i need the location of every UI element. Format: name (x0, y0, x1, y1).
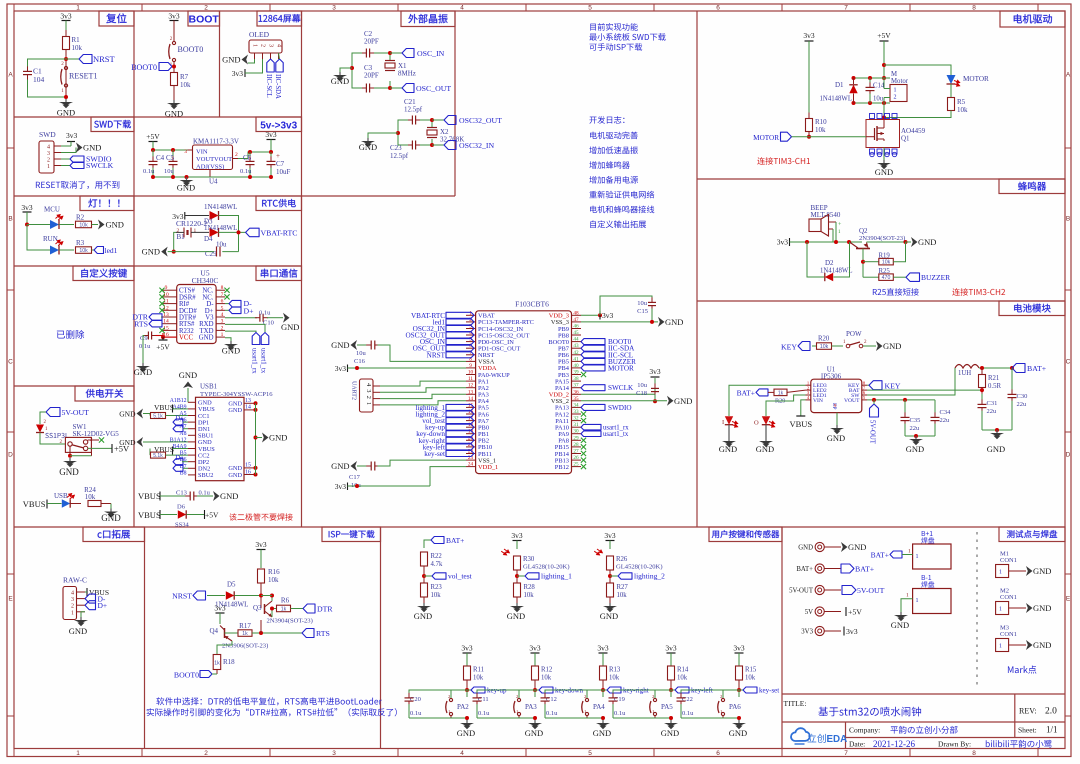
capacitor C7 polarized (270, 152, 272, 158)
svg-text:BAT+: BAT+ (871, 551, 889, 560)
ground ldo (186, 177, 188, 180)
svg-text:9: 9 (469, 363, 472, 369)
wire (66, 58, 79, 60)
svg-text:2.0: 2.0 (1045, 707, 1057, 717)
svg-text:GND: GND (987, 444, 1005, 454)
ground sw1 (69, 458, 71, 461)
svg-text:OSC_IN: OSC_IN (417, 49, 445, 58)
wire (65, 50, 67, 98)
vcc wire +5V (162, 336, 177, 338)
ground buzzer (911, 237, 918, 247)
svg-text:I: I (722, 419, 724, 426)
crystal X1 (374, 53, 390, 60)
block partition lines (133, 11, 135, 527)
svg-text:CON1: CON1 (1000, 631, 1017, 638)
net port OSC_OUT (390, 87, 402, 89)
svg-text:D4: D4 (204, 235, 213, 243)
resistor R1 (63, 37, 70, 50)
capacitor C1 (28, 59, 67, 67)
svg-text:0.1u: 0.1u (143, 168, 155, 175)
svg-text:CON1: CON1 (1000, 594, 1017, 601)
svg-text:key-set: key-set (759, 687, 779, 695)
svg-text:10u: 10u (873, 96, 884, 103)
wire key bottom (681, 718, 739, 722)
net port NRST (79, 55, 92, 64)
net port D- typec2 (173, 465, 183, 471)
svg-text:3: 3 (71, 597, 74, 603)
svg-text:C9: C9 (140, 335, 148, 342)
svg-text:1: 1 (221, 332, 224, 338)
svg-text:OSC32_OUT: OSC32_OUT (459, 116, 502, 125)
svg-text:REV:: REV: (1019, 707, 1037, 716)
net port BOOT0 isp (200, 671, 212, 678)
ground (339, 72, 341, 75)
svg-text:GND: GND (331, 76, 349, 86)
wire key top (409, 690, 467, 695)
ground usb right (256, 437, 263, 439)
net port SWCLK (61, 165, 70, 167)
svg-text:Q1: Q1 (901, 135, 910, 143)
svg-text:48: 48 (573, 310, 579, 316)
svg-text:5V-OUT: 5V-OUT (62, 408, 90, 417)
block title 灯！！！ (80, 196, 134, 211)
block title 用户按键和传感器 (709, 527, 782, 542)
svg-text:D+: D+ (98, 601, 108, 610)
svg-text:BAT+: BAT+ (737, 389, 755, 398)
block title 测试点与焊盘 (999, 527, 1065, 542)
svg-text:C12: C12 (546, 696, 557, 703)
net port key-down (535, 689, 539, 691)
svg-text:MOTOR: MOTOR (608, 364, 634, 372)
svg-text:Motor: Motor (891, 78, 909, 85)
resistor R11 (464, 666, 471, 680)
svg-text:VBUS: VBUS (138, 510, 161, 520)
note deleted (57, 330, 84, 339)
svg-text:0.1u: 0.1u (240, 168, 252, 175)
svg-text:C17: C17 (349, 474, 361, 481)
svg-text:3v3: 3v3 (604, 531, 616, 540)
svg-text:D: D (8, 451, 13, 458)
svg-text:BUZZER: BUZZER (921, 273, 950, 282)
transistor Q1 AO4459 mosfet (866, 120, 900, 148)
svg-text:10u: 10u (356, 350, 367, 357)
svg-text:C19: C19 (614, 696, 625, 703)
wire (173, 86, 175, 101)
resistor R27 (607, 583, 614, 597)
ground (173, 100, 175, 103)
svg-text:C5: C5 (166, 154, 175, 162)
svg-text:lighting_1: lighting_1 (541, 572, 572, 581)
svg-text:Q2: Q2 (859, 227, 868, 235)
svg-text:GND: GND (331, 340, 349, 350)
svg-text:2: 2 (221, 325, 224, 331)
crystal X2 (420, 120, 432, 127)
svg-text:1: 1 (999, 644, 1002, 650)
svg-text:2: 2 (47, 158, 50, 164)
svg-text:PA2: PA2 (457, 703, 469, 711)
note isp explanation (156, 697, 382, 705)
svg-text:10k: 10k (815, 126, 826, 134)
svg-text:GND: GND (57, 108, 75, 118)
svg-text:8MHz: 8MHz (398, 70, 416, 78)
svg-text:5V-OUT: 5V-OUT (857, 586, 885, 595)
svg-text:37: 37 (573, 383, 579, 389)
svg-text:7: 7 (844, 750, 848, 757)
svg-text:3v3: 3v3 (168, 12, 180, 21)
switch PA3 (534, 690, 536, 697)
svg-text:0.1u: 0.1u (682, 710, 694, 717)
svg-text:VOUTVOUT: VOUTVOUT (196, 156, 232, 163)
ground c9 (142, 363, 144, 366)
note r25 short (873, 288, 919, 296)
svg-text:GND: GND (525, 728, 543, 738)
svg-text:GND: GND (119, 410, 136, 419)
vss3 gnd (581, 321, 658, 323)
svg-text:GND: GND (906, 444, 924, 454)
svg-text:12: 12 (468, 383, 474, 389)
svg-text:20PF: 20PF (364, 38, 379, 46)
led charge I (729, 385, 806, 416)
svg-text:GND: GND (69, 626, 87, 636)
ground c34 c35 (905, 435, 935, 437)
svg-text:VBUS: VBUS (154, 403, 174, 412)
svg-text:GND: GND (665, 317, 683, 327)
note Mark dot (1008, 665, 1036, 673)
node NRST junction (64, 57, 68, 61)
svg-text:D6: D6 (177, 504, 186, 511)
svg-text:15: 15 (245, 463, 251, 469)
left net ports mcu (446, 312, 474, 318)
svg-text:4: 4 (276, 44, 282, 47)
svg-text:PA6: PA6 (729, 703, 741, 711)
svg-text:MLT-8540: MLT-8540 (811, 211, 841, 219)
usart1 ports (581, 424, 601, 430)
svg-text:GND: GND (179, 370, 197, 380)
svg-text:1: 1 (999, 607, 1002, 613)
svg-text:10k: 10k (85, 493, 96, 501)
capacitor C14 (869, 78, 871, 84)
svg-text:3v3: 3v3 (232, 69, 244, 78)
svg-text:3v3: 3v3 (649, 367, 661, 376)
svg-text:1: 1 (916, 598, 919, 604)
svg-text:IIC-SDA: IIC-SDA (274, 74, 281, 99)
wire (27, 224, 50, 226)
resistor R1 5.1k cc1 (137, 409, 144, 419)
resistor R10 (808, 113, 810, 120)
note tim3-ch1 (757, 157, 810, 165)
svg-text:13: 13 (245, 398, 251, 404)
svg-text:6: 6 (716, 750, 720, 757)
wire (65, 21, 67, 31)
svg-text:29: 29 (573, 435, 579, 441)
capacitor C15 (600, 296, 652, 315)
svg-text:10uF: 10uF (276, 168, 291, 176)
svg-text:PA4: PA4 (593, 703, 605, 711)
block title 5v->3v3 (256, 117, 302, 132)
svg-text:C16: C16 (354, 358, 366, 365)
svg-text:12.5pf: 12.5pf (404, 106, 423, 114)
svg-text:C29: C29 (205, 250, 217, 258)
svg-text:R2: R2 (76, 214, 85, 222)
switch PA6 (738, 690, 740, 697)
svg-text:Company:: Company: (849, 726, 880, 735)
svg-text:usart1_tx: usart1_tx (260, 348, 267, 374)
svg-text:5V-OUT: 5V-OUT (789, 588, 814, 595)
ground mcu led (98, 220, 105, 230)
svg-text:36: 36 (573, 389, 579, 395)
switch PA5 (670, 690, 672, 697)
svg-text:GND: GND (798, 545, 813, 552)
svg-text:R11: R11 (473, 667, 484, 674)
svg-text:25: 25 (573, 462, 579, 468)
net port BAT+ right (1012, 364, 1025, 373)
svg-text:22u: 22u (987, 408, 998, 415)
svg-text:10k: 10k (524, 592, 535, 599)
svg-text:10k: 10k (820, 344, 829, 350)
gnd ep (836, 413, 838, 425)
svg-text:10k: 10k (745, 675, 756, 682)
svg-text:+5V: +5V (848, 608, 862, 617)
svg-text:RESET1: RESET1 (69, 72, 97, 81)
svg-text:MCU: MCU (44, 206, 60, 214)
svg-text:2021-12-26: 2021-12-26 (873, 739, 915, 749)
net port OSC_IN (390, 52, 402, 54)
svg-text:+: + (276, 152, 280, 160)
svg-text:20PF: 20PF (364, 72, 379, 80)
net port D- typec1 (173, 426, 183, 432)
svg-text:1k: 1k (778, 390, 784, 396)
svg-text:GND: GND (875, 167, 893, 177)
svg-text:GND: GND (134, 367, 152, 377)
block title 12864屏幕 (257, 11, 302, 26)
pa12 pa11 x (581, 411, 586, 416)
svg-text:C13: C13 (176, 490, 187, 497)
svg-text:GND: GND (331, 461, 349, 471)
svg-text:11: 11 (468, 376, 473, 382)
svg-text:C11: C11 (478, 696, 489, 703)
net port led1 (94, 247, 104, 254)
node junctions (388, 51, 392, 55)
svg-text:2N3906(SOT-23): 2N3906(SOT-23) (222, 643, 268, 650)
svg-text:10k: 10k (79, 248, 88, 254)
svg-text:E: E (8, 595, 13, 602)
svg-text:A: A (8, 71, 13, 78)
svg-text:2: 2 (235, 152, 238, 158)
svg-text:GND: GND (918, 237, 936, 247)
wire q3 base-emitter (271, 609, 273, 618)
svg-text:9: 9 (165, 285, 168, 291)
svg-text:+5V: +5V (877, 31, 891, 40)
svg-text:MOTOR: MOTOR (753, 134, 779, 142)
net port D- usb (225, 303, 229, 305)
wire (40, 433, 65, 445)
svg-text:3v3: 3v3 (511, 531, 523, 540)
svg-text:5: 5 (588, 5, 592, 12)
svg-text:1N4148WL: 1N4148WL (204, 203, 237, 211)
resistor R28 (514, 583, 521, 597)
gnd rail wire (153, 176, 271, 178)
note current functions (590, 23, 638, 31)
svg-text:GND: GND (142, 247, 160, 257)
net port 5V-OUT vertical (867, 389, 982, 391)
swdio port (581, 404, 605, 410)
svg-text:10k: 10k (617, 592, 628, 599)
svg-text:VBUS: VBUS (138, 491, 161, 501)
capacitor C6 (248, 150, 252, 154)
net port RTS isp (302, 629, 314, 638)
svg-text:1N4148WL: 1N4148WL (204, 224, 237, 232)
svg-text:TITLE:: TITLE: (784, 699, 807, 708)
ground led I (728, 438, 730, 441)
svg-text:2N3904(SOT-23): 2N3904(SOT-23) (859, 235, 905, 242)
svg-text:2: 2 (71, 604, 74, 610)
svg-text:GND: GND (165, 109, 183, 119)
ground PA3 (534, 720, 536, 723)
svg-text:R17: R17 (239, 622, 251, 630)
svg-text:E: E (1066, 595, 1071, 602)
net port IIC-SCL (267, 59, 274, 72)
ground (367, 138, 369, 141)
svg-text:GND: GND (891, 620, 909, 630)
svg-text:GND: GND (674, 396, 692, 406)
svg-text:SK-12D02-VG5: SK-12D02-VG5 (73, 430, 120, 438)
svg-text:PA3: PA3 (525, 703, 537, 711)
svg-text:GND: GND (281, 322, 299, 332)
svg-text:1k: 1k (281, 607, 287, 613)
svg-text:10k: 10k (882, 260, 891, 266)
capacitor C34 (934, 400, 936, 415)
svg-text:10: 10 (468, 370, 474, 376)
net port key-right (603, 689, 607, 691)
svg-text:RTS: RTS (134, 320, 148, 329)
svg-text:CH340C: CH340C (192, 276, 219, 285)
svg-text:3v3: 3v3 (60, 12, 72, 21)
svg-text:A4B9: A4B9 (173, 404, 187, 410)
svg-text:GND: GND (593, 728, 611, 738)
svg-text:104: 104 (33, 75, 45, 84)
svg-text:33: 33 (573, 409, 579, 415)
svg-text:C35: C35 (910, 417, 921, 424)
svg-text:1UH: 1UH (958, 370, 971, 377)
svg-text:MOTOR: MOTOR (963, 75, 989, 83)
resistor R2 5.1k cc2 (149, 449, 151, 456)
svg-text:GND: GND (600, 611, 618, 621)
svg-text:D2: D2 (825, 259, 834, 267)
svg-text:VBUS: VBUS (23, 499, 46, 509)
svg-text:31: 31 (573, 422, 579, 428)
gnd c17 vss1 (351, 461, 358, 471)
net port OSC32_IN (432, 144, 444, 146)
wire key bottom (477, 718, 535, 722)
svg-text:34: 34 (573, 402, 579, 408)
svg-text:3: 3 (332, 5, 336, 12)
svg-text:R7: R7 (180, 73, 189, 81)
resistor R5 (948, 98, 955, 111)
svg-text:2: 2 (260, 44, 266, 47)
svg-text:R16: R16 (268, 568, 280, 576)
svg-text:C31: C31 (987, 400, 998, 407)
ground ch340 pin1 (225, 338, 231, 341)
svg-text:GL4528(10-20K): GL4528(10-20K) (523, 564, 570, 571)
svg-text:22u: 22u (1017, 401, 1028, 408)
ground v3 (283, 313, 290, 323)
resistor R21 (981, 368, 983, 374)
ground r24 (110, 509, 112, 512)
capacitor C31 (981, 394, 983, 402)
wire 5v rail (153, 149, 192, 151)
net port lighting_1 (517, 575, 525, 577)
capacitor C5 (171, 148, 175, 152)
svg-text:10k: 10k (473, 675, 484, 682)
svg-text:lighting_2: lighting_2 (634, 572, 665, 581)
power +5V out (111, 444, 113, 453)
svg-text:B: B (1066, 215, 1070, 222)
svg-text:R13: R13 (609, 667, 621, 674)
svg-text:GND: GND (1033, 566, 1051, 576)
svg-text:B4A9: B4A9 (173, 444, 187, 450)
ground r23 (423, 603, 425, 606)
svg-text:10u: 10u (216, 241, 227, 249)
capacitor C35 (903, 398, 907, 402)
svg-text:GND: GND (269, 433, 287, 443)
svg-text:D5: D5 (227, 581, 236, 589)
svg-text:0.5R: 0.5R (988, 383, 1001, 390)
svg-text:1: 1 (894, 88, 897, 94)
svg-text:GND: GND (199, 335, 214, 342)
svg-text:42: 42 (573, 350, 579, 356)
ground (65, 99, 67, 102)
svg-text:VCC: VCC (179, 335, 193, 342)
svg-text:3: 3 (332, 750, 336, 757)
block title 复位 (99, 11, 134, 26)
svg-text:IIC-SCL: IIC-SCL (265, 74, 272, 98)
svg-text:1: 1 (76, 750, 80, 757)
svg-text:RAW-C: RAW-C (63, 576, 87, 585)
svg-text:1: 1 (47, 164, 50, 170)
svg-text:GND: GND (719, 444, 737, 454)
svg-text:8: 8 (972, 5, 976, 12)
svg-text:1: 1 (71, 610, 74, 616)
wire to drain (884, 111, 951, 118)
svg-text:BAT+: BAT+ (1027, 364, 1047, 373)
svg-text:Drawn By:: Drawn By: (938, 740, 971, 749)
svg-text:GND: GND (222, 55, 240, 65)
svg-text:EDA: EDA (827, 734, 848, 745)
svg-text:1N4148WL: 1N4148WL (820, 96, 852, 103)
ground rtc (161, 247, 168, 257)
svg-text:28: 28 (573, 442, 579, 448)
svg-text:SWCLK: SWCLK (608, 384, 634, 392)
svg-text:C34: C34 (940, 409, 952, 416)
net port vol_test (424, 575, 432, 577)
svg-text:R15: R15 (745, 667, 757, 674)
net port key-set (739, 689, 743, 691)
svg-text:44: 44 (573, 337, 579, 343)
svg-text:7: 7 (844, 5, 848, 12)
svg-text:1: 1 (908, 549, 911, 555)
right side vdd3 3v3 (581, 314, 600, 316)
svg-text:10u: 10u (637, 382, 648, 389)
svg-text:35: 35 (573, 396, 579, 402)
note tim3-ch2 (952, 288, 1005, 296)
svg-text:RTS: RTS (316, 629, 330, 638)
resistor R16 (258, 569, 265, 583)
svg-text:2: 2 (894, 95, 897, 101)
svg-text:vol_test: vol_test (448, 572, 473, 581)
svg-text:14: 14 (468, 396, 474, 402)
vss2 gnd (581, 400, 667, 402)
pb3 x (581, 372, 586, 377)
